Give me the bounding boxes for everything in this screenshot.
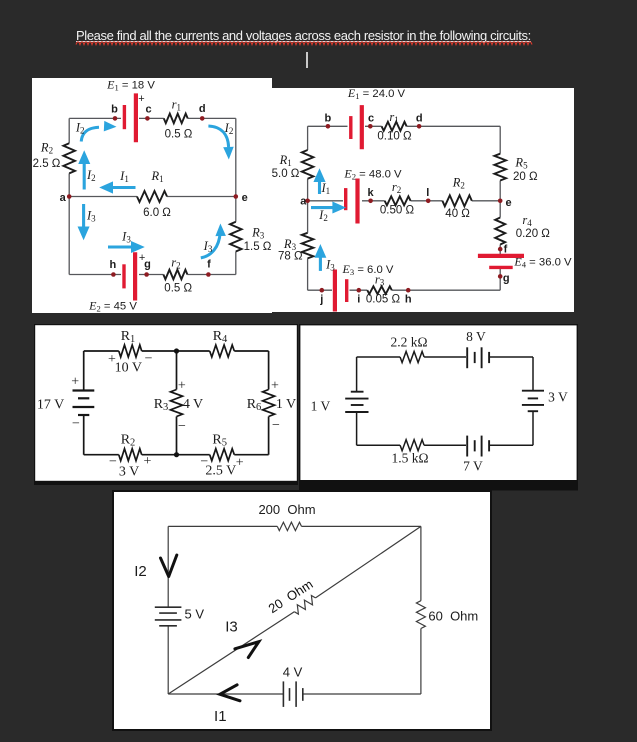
svg-text:k: k [368, 187, 375, 199]
svg-text:c: c [368, 112, 374, 124]
svg-text:0.20 Ω: 0.20 Ω [516, 228, 551, 240]
svg-text:i: i [357, 294, 360, 306]
svg-text:j: j [319, 294, 323, 306]
svg-text:b: b [325, 112, 332, 124]
svg-text:3 V: 3 V [119, 465, 139, 480]
svg-text:2.5 V: 2.5 V [205, 464, 236, 479]
svg-text:+: + [178, 379, 186, 394]
svg-text:I3: I3 [225, 619, 238, 636]
svg-text:0.5 Ω: 0.5 Ω [164, 282, 192, 294]
svg-text:17 V: 17 V [37, 398, 64, 413]
svg-text:E2 = 45 V: E2 = 45 V [88, 299, 137, 314]
svg-text:+: + [71, 375, 79, 390]
svg-text:I1: I1 [214, 708, 227, 725]
svg-text:+: + [271, 378, 279, 393]
svg-text:h: h [405, 294, 412, 306]
svg-text:f: f [504, 244, 508, 256]
svg-text:60 Ohm: 60 Ohm [428, 609, 478, 624]
svg-text:E3 = 6.0 V: E3 = 6.0 V [342, 262, 394, 277]
svg-text:l: l [426, 187, 429, 199]
svg-text:+: + [236, 456, 244, 471]
svg-text:e: e [505, 197, 511, 209]
svg-text:10 V: 10 V [115, 361, 142, 376]
svg-text:78 Ω: 78 Ω [278, 251, 303, 263]
svg-text:E1 = 18 V: E1 = 18 V [106, 78, 155, 92]
svg-text:1 V: 1 V [311, 399, 331, 414]
svg-text:0.05 Ω: 0.05 Ω [366, 294, 401, 306]
svg-text:3 V: 3 V [548, 390, 568, 405]
svg-text:I2: I2 [134, 563, 147, 580]
svg-text:+: + [143, 454, 151, 469]
svg-text:2.5 Ω: 2.5 Ω [33, 158, 61, 170]
svg-text:d: d [416, 112, 423, 124]
svg-text:−: − [145, 351, 153, 366]
svg-text:h: h [110, 259, 117, 271]
svg-text:5 V: 5 V [185, 606, 205, 621]
svg-text:E1 = 24.0 V: E1 = 24.0 V [347, 88, 406, 101]
svg-text:200 Ohm: 200 Ohm [258, 502, 315, 517]
svg-text:d: d [199, 103, 206, 115]
svg-text:20 Ω: 20 Ω [513, 171, 538, 183]
svg-text:0.5 Ω: 0.5 Ω [165, 128, 193, 140]
svg-text:7 V: 7 V [463, 459, 483, 474]
svg-text:b: b [111, 104, 118, 116]
svg-text:2.2 kΩ: 2.2 kΩ [390, 335, 427, 350]
svg-text:+: + [139, 252, 145, 264]
svg-text:a: a [300, 195, 307, 207]
svg-text:1 V: 1 V [276, 397, 296, 412]
svg-text:4 V: 4 V [283, 665, 303, 680]
svg-text:0.10 Ω: 0.10 Ω [377, 131, 412, 143]
svg-text:4 V: 4 V [183, 397, 203, 412]
svg-text:−: − [109, 455, 117, 470]
svg-text:−: − [72, 416, 80, 431]
svg-text:g: g [503, 273, 510, 285]
svg-text:5.0 Ω: 5.0 Ω [272, 168, 300, 180]
svg-text:8 V: 8 V [466, 329, 486, 344]
svg-text:0.50 Ω: 0.50 Ω [380, 204, 415, 216]
svg-text:−: − [178, 419, 186, 434]
svg-text:40 Ω: 40 Ω [445, 208, 470, 220]
svg-text:e: e [242, 192, 248, 204]
svg-text:+: + [138, 93, 144, 105]
svg-text:1.5 Ω: 1.5 Ω [244, 241, 272, 253]
svg-text:6.0 Ω: 6.0 Ω [143, 207, 171, 219]
svg-text:f: f [207, 258, 211, 270]
svg-text:c: c [145, 104, 151, 116]
svg-text:−: − [272, 418, 280, 433]
svg-text:1.5 kΩ: 1.5 kΩ [391, 451, 428, 466]
svg-text:a: a [60, 192, 67, 204]
